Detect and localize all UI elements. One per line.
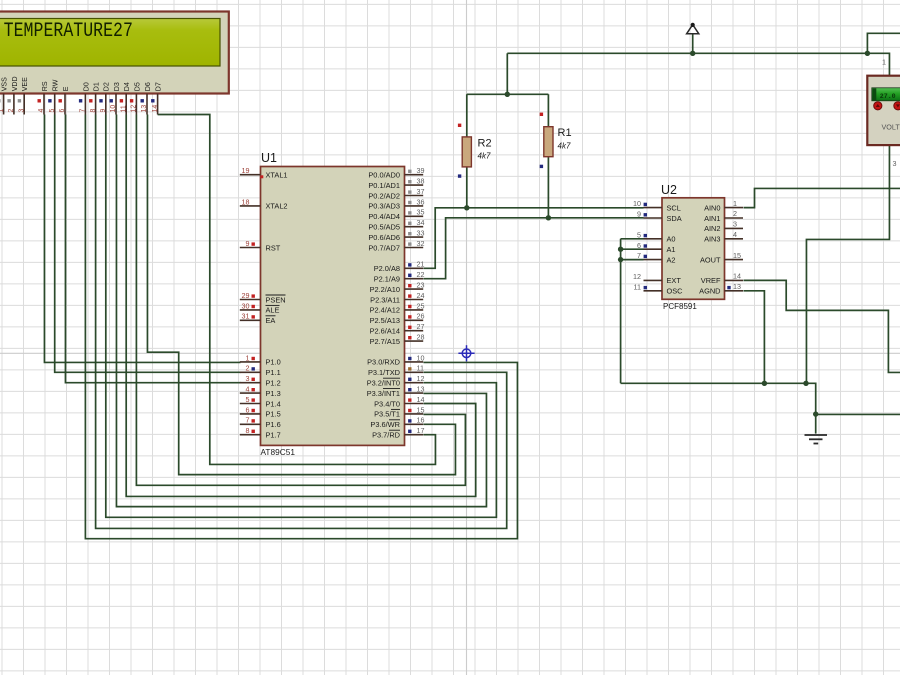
svg-text:8: 8 (246, 426, 250, 435)
svg-text:P0.0/AD0: P0.0/AD0 (368, 171, 400, 180)
node junction R1/SDA (546, 215, 551, 220)
svg-text:RS: RS (41, 81, 49, 91)
svg-text:R2: R2 (478, 138, 492, 150)
LCD pin 13 (D6) (141, 82, 152, 114)
svg-text:A0: A0 (667, 235, 676, 244)
svg-text:P2.0/A8: P2.0/A8 (374, 264, 400, 273)
svg-text:VSS: VSS (1, 77, 9, 91)
U2 pin 5 (A0) (637, 230, 676, 243)
svg-text:P0.6/AD6: P0.6/AD6 (368, 233, 400, 242)
LCD screen (0, 19, 220, 67)
node junction power arrow (690, 51, 695, 56)
wire net RW: LCD RW to U1 P1.1 (55, 115, 241, 373)
svg-text:VEE: VEE (21, 77, 29, 91)
svg-text:27: 27 (417, 322, 425, 331)
LCD pin 12 (D5) (131, 82, 142, 114)
svg-text:AIN1: AIN1 (704, 214, 720, 223)
svg-text:4: 4 (38, 109, 45, 113)
svg-text:16: 16 (417, 416, 425, 425)
U1 pin 30 (ALE) (240, 301, 280, 314)
U2 pin 13 (AGND) (699, 282, 743, 296)
LCD pin 7 (D0) (80, 82, 91, 114)
U1 pin 19 (XTAL1) (240, 166, 288, 179)
svg-text:24: 24 (417, 291, 425, 300)
wire wire ground stem (815, 414, 817, 433)
svg-text:VREF: VREF (701, 276, 721, 285)
wire net AIN0 to right edge (743, 188, 900, 207)
svg-text:21: 21 (417, 260, 425, 269)
U1 pin 7 (P1.6) (240, 416, 281, 429)
wire net D2: LCD D2 to U1 P3.2 (106, 115, 497, 518)
svg-text:2: 2 (246, 364, 250, 373)
wire wire U2 AGND to ground rail (743, 291, 764, 384)
origin axes (slightly darker grid lines through sheet origin) (466, 0, 468, 675)
svg-text:4k7: 4k7 (558, 142, 571, 151)
U1 pin 1 (P1.0) (240, 353, 281, 366)
node junction ground stem (813, 411, 818, 416)
svg-text:P1.0: P1.0 (266, 358, 281, 367)
wire wire ground rail to right edge (816, 413, 900, 415)
svg-text:P3.5/T1: P3.5/T1 (374, 410, 400, 419)
svg-text:8: 8 (90, 109, 97, 113)
U2 pin 6 (A1) (637, 241, 676, 254)
wire wire VCC to right edge (top) (867, 33, 900, 53)
svg-text:P1.2: P1.2 (266, 379, 281, 388)
svg-text:7: 7 (80, 109, 87, 113)
LCD display LCD1 (LM016L) (0, 12, 229, 94)
U1 pin 8 (P1.7) (240, 426, 281, 439)
U1 pin 5 (P1.4) (240, 395, 281, 408)
svg-text:AT89C51: AT89C51 (261, 447, 296, 457)
U1 pin 9 (RST) (240, 239, 281, 252)
svg-text:14: 14 (417, 395, 425, 404)
svg-text:6: 6 (246, 405, 250, 414)
svg-text:P3.0/RXD: P3.0/RXD (367, 358, 400, 367)
U1 pin 25 (P2.4/A12) (370, 301, 425, 314)
svg-text:6: 6 (637, 241, 641, 250)
svg-text:D4: D4 (123, 82, 131, 91)
svg-text:XTAL2: XTAL2 (266, 202, 288, 211)
svg-text:D5: D5 (133, 82, 141, 91)
svg-text:P3.6/WR: P3.6/WR (370, 420, 400, 429)
U1 pin 21 (P2.0/A8) (374, 260, 425, 273)
svg-text:23: 23 (417, 281, 425, 290)
U1 pin 4 (P1.3) (240, 385, 281, 398)
svg-text:P1.3: P1.3 (266, 389, 281, 398)
svg-text:EXT: EXT (667, 276, 682, 285)
power symbol VCC arrow (687, 25, 699, 34)
svg-text:3: 3 (893, 159, 897, 168)
svg-text:32: 32 (417, 239, 425, 248)
U1 pin 17 (P3.7/RD) (372, 426, 424, 439)
LCD pin 8 (D1) (90, 82, 101, 114)
svg-text:D3: D3 (113, 82, 121, 91)
wire wire R1 leads (547, 94, 549, 218)
U2 pin 3 (AIN2) (704, 220, 743, 234)
svg-text:P1.7: P1.7 (266, 431, 281, 440)
svg-text:AIN2: AIN2 (704, 224, 720, 233)
sensor up button (874, 102, 882, 110)
wire net D1: LCD D1 to U1 P3.1 (96, 115, 507, 529)
svg-text:P3.7/RD: P3.7/RD (372, 431, 400, 440)
svg-text:RW: RW (52, 79, 60, 91)
svg-text:2: 2 (8, 109, 15, 113)
svg-text:11: 11 (634, 282, 641, 291)
U1 pin 39 (P0.0/AD0) (368, 166, 424, 179)
svg-text:P2.7/A15: P2.7/A15 (370, 337, 400, 346)
svg-text:D7: D7 (155, 82, 163, 91)
svg-text:P0.2/AD2: P0.2/AD2 (368, 191, 400, 200)
wire wire VCC to sensor pin 1 (867, 53, 889, 75)
svg-text:P2.1/A9: P2.1/A9 (374, 275, 400, 284)
svg-text:36: 36 (417, 197, 425, 206)
sensor display 27.0 (872, 88, 900, 101)
node junction VCC right (865, 51, 870, 56)
U2 pin 1 (AIN0) (704, 199, 743, 213)
U1 pin 28 (P2.7/A15) (370, 333, 425, 346)
svg-text:31: 31 (242, 312, 250, 321)
wire net D5: LCD D5 to U1 P3.5 (136, 115, 465, 486)
svg-text:6: 6 (59, 109, 66, 113)
wire net SCL: U1 P2.0 to U2 SCL (423, 208, 643, 268)
U1 pin 15 (P3.5/T1) (374, 405, 424, 418)
U1 pin 34 (P0.5/AD5) (368, 218, 424, 231)
wire wire U2 VREF to right edge (743, 280, 900, 372)
svg-text:15: 15 (733, 251, 741, 260)
node junction sensor gnd/ground rail (803, 381, 808, 386)
svg-text:P1.1: P1.1 (266, 368, 281, 377)
U2 pin 14 (VREF) (701, 272, 743, 286)
svg-text:12: 12 (131, 105, 138, 113)
svg-text:13: 13 (733, 282, 741, 291)
U1 pin 22 (P2.1/A9) (374, 270, 425, 283)
svg-text:AIN3: AIN3 (704, 235, 720, 244)
svg-text:U1: U1 (261, 151, 277, 165)
svg-text:U2: U2 (661, 183, 677, 197)
node junction VCC T (505, 92, 510, 97)
U2 pin 2 (AIN1) (704, 209, 743, 223)
svg-text:5: 5 (246, 395, 250, 404)
LCD pin 6 (E) (59, 86, 70, 114)
LCD pin 1 (VSS) (0, 77, 8, 115)
U2 pin 12 (EXT) (633, 272, 681, 285)
svg-text:P0.5/AD5: P0.5/AD5 (368, 223, 400, 232)
node junction R2/SCL (464, 205, 469, 210)
svg-text:P0.1/AD1: P0.1/AD1 (368, 181, 400, 190)
svg-text:14: 14 (733, 272, 741, 281)
svg-text:AIN0: AIN0 (704, 203, 720, 212)
microcontroller U1 AT89C51 (261, 167, 405, 446)
svg-text:P3.3/INT1: P3.3/INT1 (367, 389, 400, 398)
svg-text:4: 4 (733, 230, 737, 239)
svg-text:A1: A1 (667, 245, 676, 254)
svg-text:1: 1 (733, 199, 737, 208)
wire wire ground rail (621, 383, 816, 414)
svg-text:3: 3 (18, 109, 25, 113)
U1 pin 3 (P1.2) (240, 374, 281, 387)
ADC U2 PCF8591 (662, 198, 725, 299)
svg-text:33: 33 (417, 229, 425, 238)
node junction A1 (618, 247, 623, 252)
U1 pin 35 (P0.4/AD4) (368, 208, 424, 221)
U1 pin 29 (PSEN) (240, 291, 286, 304)
U1 pin 10 (P3.0/RXD) (367, 353, 424, 366)
wire net D0: LCD D0 to U1 P3.0 (85, 115, 517, 539)
U2 pin 15 (AOUT) (700, 251, 743, 265)
U1 pin 2 (P1.1) (240, 364, 281, 377)
svg-text:D1: D1 (93, 82, 101, 91)
svg-text:D2: D2 (103, 82, 111, 91)
svg-text:TEMPERATURE27: TEMPERATURE27 (4, 20, 133, 43)
svg-text:18: 18 (242, 197, 250, 206)
svg-text:P1.5: P1.5 (266, 410, 281, 419)
wire net SDA: U1 P2.1 to U2 SDA (423, 218, 643, 279)
svg-text:35: 35 (417, 208, 425, 217)
svg-text:P2.5/A13: P2.5/A13 (370, 316, 400, 325)
svg-text:RST: RST (266, 243, 281, 252)
svg-text:9: 9 (100, 109, 107, 113)
LCD pin 9 (D2) (100, 82, 111, 114)
svg-text:PCF8591: PCF8591 (663, 302, 697, 311)
U1 pin 13 (P3.3/INT1) (367, 385, 425, 398)
svg-text:P3.4/T0: P3.4/T0 (374, 399, 400, 408)
LCD pin 5 (RW) (49, 79, 60, 114)
wire net RS: LCD RS to U1 P1.0 (44, 115, 240, 363)
svg-text:13: 13 (141, 105, 148, 113)
svg-text:13: 13 (417, 385, 425, 394)
svg-text:P3.2/INT0: P3.2/INT0 (367, 379, 400, 388)
U1 pin 16 (P3.6/WR) (370, 416, 424, 429)
U1 pin 31 (EA) (240, 312, 276, 325)
U1 pin 38 (P0.1/AD1) (368, 177, 424, 190)
svg-text:10: 10 (110, 105, 117, 113)
svg-text:22: 22 (417, 270, 425, 279)
U2 pin 10 (SCL) (633, 199, 681, 212)
svg-text:P2.6/A14: P2.6/A14 (370, 327, 400, 336)
svg-text:EA: EA (266, 316, 276, 325)
wire wire VCC horizontal rail (507, 52, 867, 54)
U2 pin 11 (OSC) (634, 282, 684, 295)
svg-text:9: 9 (637, 210, 641, 219)
node junction A2 (618, 257, 623, 262)
svg-text:34: 34 (417, 218, 425, 227)
sensor down button (894, 102, 900, 110)
U1 pin 33 (P0.6/AD6) (368, 229, 424, 242)
U1 pin 37 (P0.2/AD2) (368, 187, 424, 200)
svg-text:26: 26 (417, 312, 425, 321)
wire net D4: LCD D4 to U1 P3.4 (126, 115, 476, 497)
svg-text:11: 11 (417, 364, 424, 373)
svg-text:38: 38 (417, 177, 425, 186)
svg-text:D6: D6 (144, 82, 152, 91)
svg-text:19: 19 (242, 166, 250, 175)
svg-text:P0.7/AD7: P0.7/AD7 (368, 243, 400, 252)
LCD pin 2 (VDD) (8, 76, 19, 114)
svg-text:12: 12 (417, 374, 425, 383)
wire wire power tap (692, 34, 694, 54)
svg-text:29: 29 (242, 291, 250, 300)
svg-text:AGND: AGND (699, 287, 720, 296)
svg-text:4k7: 4k7 (478, 152, 491, 161)
resistor R2 4k7 (462, 137, 471, 167)
svg-text:E: E (62, 86, 70, 91)
svg-text:3: 3 (733, 220, 737, 229)
wire wire sensor pin 3 to ground rail (806, 145, 889, 383)
U2 pin 9 (SDA) (637, 210, 682, 223)
U1 pin 27 (P2.6/A14) (370, 322, 425, 335)
U1 pin 23 (P2.2/A10) (370, 281, 425, 294)
svg-text:P0.3/AD3: P0.3/AD3 (368, 202, 400, 211)
svg-text:3: 3 (246, 374, 250, 383)
svg-text:AOUT: AOUT (700, 255, 721, 264)
svg-text:15: 15 (417, 405, 425, 414)
U1 pin 32 (P0.7/AD7) (368, 239, 424, 252)
LCD pin 11 (D4) (120, 82, 131, 114)
svg-text:VOLT: VOLT (882, 123, 900, 132)
U1 pin 18 (XTAL2) (240, 197, 288, 210)
LCD pin 14 (D7) (152, 82, 163, 114)
U1 pin 6 (P1.5) (240, 405, 281, 418)
wire net D3: LCD D3 to U1 P3.3 (116, 115, 486, 507)
svg-text:P1.4: P1.4 (266, 399, 281, 408)
svg-text:5: 5 (49, 109, 56, 113)
U1 pin 36 (P0.3/AD3) (368, 197, 424, 210)
svg-text:SDA: SDA (667, 214, 682, 223)
svg-text:1: 1 (0, 109, 5, 113)
svg-text:5: 5 (637, 230, 641, 239)
svg-text:1: 1 (246, 353, 250, 362)
U2 pin 7 (A2) (637, 251, 676, 264)
wire wire U2 A0 A1 A2 tie-down (621, 239, 644, 383)
U1 pin 11 (P3.1/TXD) (368, 364, 424, 377)
svg-text:9: 9 (246, 239, 250, 248)
svg-text:P0.4/AD4: P0.4/AD4 (368, 212, 400, 221)
svg-text:XTAL1: XTAL1 (266, 171, 288, 180)
U2 pin 4 (AIN3) (704, 230, 743, 244)
svg-text:14: 14 (152, 105, 159, 113)
LCD pin 4 (RS) (38, 81, 49, 114)
svg-text:25: 25 (417, 301, 425, 310)
svg-text:P2.2/A10: P2.2/A10 (370, 285, 400, 294)
origin marker (blue crosshair) (458, 345, 474, 361)
svg-text:27.0: 27.0 (880, 93, 896, 100)
svg-text:7: 7 (637, 251, 641, 260)
svg-text:17: 17 (417, 426, 425, 435)
svg-text:ALE: ALE (266, 306, 280, 315)
wire net D7: LCD D7 to U1 P3.7 (158, 115, 436, 465)
svg-text:2: 2 (733, 209, 737, 218)
U1 pin 12 (P3.2/INT0) (367, 374, 425, 387)
wire net D6: LCD D6 to U1 P3.6 (147, 115, 455, 475)
svg-text:P2.4/A12: P2.4/A12 (370, 306, 400, 315)
svg-text:R1: R1 (558, 127, 572, 139)
svg-text:A2: A2 (667, 255, 676, 264)
svg-text:10: 10 (633, 199, 641, 208)
wire wire R2 leads (466, 94, 468, 208)
wire wire VCC riser (506, 53, 508, 94)
wire net E: LCD E to U1 P1.2 (65, 115, 240, 383)
node junction AGND/ground rail (762, 381, 767, 386)
svg-text:28: 28 (417, 333, 425, 342)
wire wire VCC top between R2 and R1 (467, 93, 549, 95)
svg-text:P1.6: P1.6 (266, 420, 281, 429)
svg-text:P3.1/TXD: P3.1/TXD (368, 368, 400, 377)
U1 pin 14 (P3.4/T0) (374, 395, 424, 408)
svg-text:OSC: OSC (667, 287, 684, 296)
svg-text:D0: D0 (82, 82, 90, 91)
ground symbol (805, 435, 828, 444)
svg-text:39: 39 (417, 166, 425, 175)
resistor R1 4k7 (544, 127, 553, 157)
svg-text:VDD: VDD (11, 76, 19, 91)
temperature sensor (right edge, partially off-screen) (867, 76, 900, 145)
svg-text:10: 10 (417, 353, 425, 362)
svg-text:11: 11 (120, 105, 127, 112)
svg-text:PSEN: PSEN (266, 295, 286, 304)
LCD pin 10 (D3) (110, 82, 121, 114)
svg-text:4: 4 (246, 385, 250, 394)
svg-text:SCL: SCL (667, 203, 681, 212)
svg-text:37: 37 (417, 187, 425, 196)
U1 pin 24 (P2.3/A11) (370, 291, 424, 304)
svg-text:12: 12 (633, 272, 641, 281)
svg-text:P2.3/A11: P2.3/A11 (370, 295, 400, 304)
svg-text:1: 1 (882, 58, 886, 67)
svg-text:7: 7 (246, 416, 250, 425)
svg-text:30: 30 (242, 301, 250, 310)
LCD pin 3 (VEE) (18, 77, 29, 115)
U1 pin 26 (P2.5/A13) (370, 312, 425, 325)
